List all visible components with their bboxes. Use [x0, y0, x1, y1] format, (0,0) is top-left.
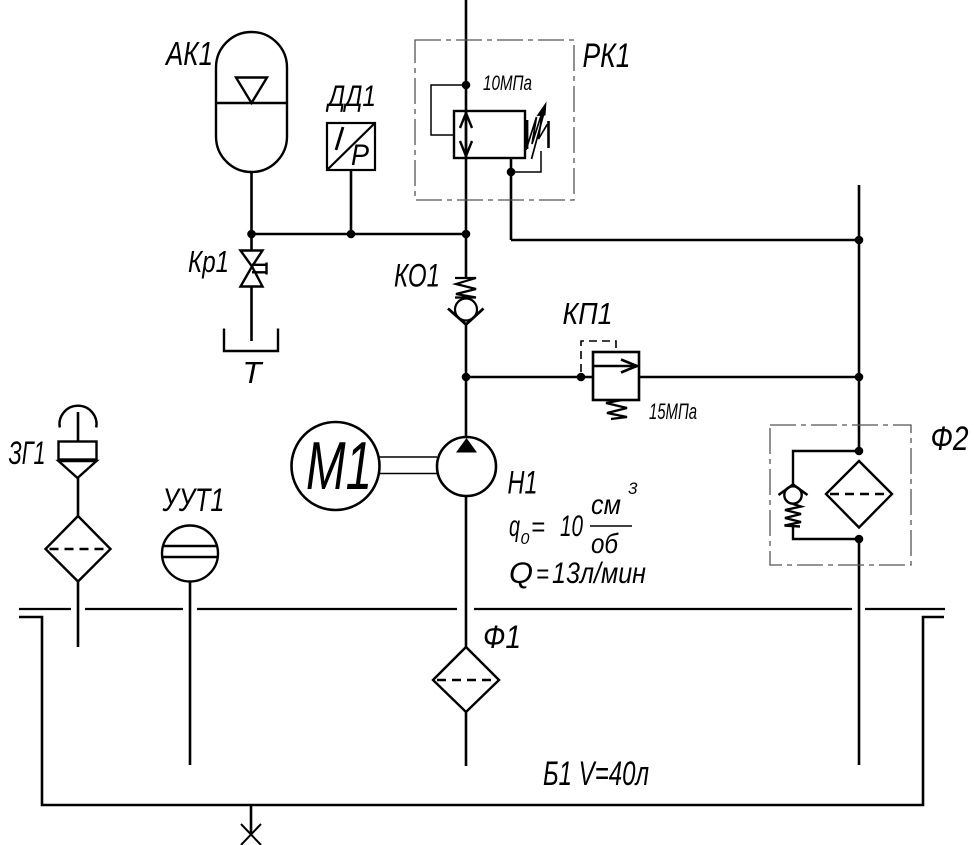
svg-text:УУТ1: УУТ1 [162, 482, 225, 518]
svg-text:0: 0 [521, 531, 530, 548]
svg-text:Т: Т [243, 355, 264, 390]
svg-text:М1: М1 [306, 428, 372, 504]
svg-text:Ф2: Ф2 [931, 420, 969, 458]
svg-text:10МПа: 10МПа [483, 72, 532, 95]
svg-text:РК1: РК1 [583, 37, 631, 75]
svg-text:Р: Р [351, 139, 369, 172]
svg-text:КО1: КО1 [394, 258, 440, 294]
svg-text:q: q [509, 510, 520, 543]
svg-text:ДД1: ДД1 [326, 80, 376, 113]
svg-text:об: об [591, 528, 619, 559]
svg-text:см: см [591, 489, 621, 520]
svg-text:Ф1: Ф1 [483, 619, 521, 655]
svg-text:АК1: АК1 [164, 35, 213, 72]
svg-text:ЗГ1: ЗГ1 [9, 435, 46, 471]
svg-text:Н1: Н1 [508, 465, 538, 501]
svg-text:3: 3 [628, 479, 638, 498]
svg-text:Б1 V=40л: Б1 V=40л [543, 755, 649, 793]
svg-text:Q: Q [509, 557, 533, 590]
svg-text:Кр1: Кр1 [188, 244, 229, 279]
svg-text:15МПа: 15МПа [649, 399, 697, 424]
svg-text:10: 10 [560, 510, 583, 543]
svg-text:=: = [531, 511, 545, 542]
svg-text:КП1: КП1 [563, 296, 613, 331]
svg-text:13л/мин: 13л/мин [552, 557, 646, 590]
svg-text:=: = [536, 558, 549, 589]
